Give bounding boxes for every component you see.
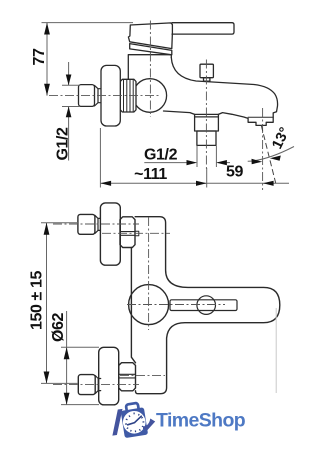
inlet neck chamfer (side view) [95,85,101,106]
bottom inlet neck chamfer (front view) [95,376,101,394]
faint extension line right (front view) [275,308,277,393]
lever pivot circle (front view) [197,296,216,315]
bottom wall flange (front view) [99,347,119,405]
ribbed mounting nut (side view) [120,79,136,112]
top wall flange (front view) [100,203,120,265]
logo stripe [112,409,122,436]
extension line at wall flange [99,128,101,188]
spout underside left segment (side view) [164,111,195,114]
bottom stub centerline [53,384,139,386]
svg-text:150 ± 15: 150 ± 15 [29,271,46,330]
svg-text:13°: 13° [269,125,293,152]
body sphere (side view) [133,79,167,113]
logo clock hands [128,416,142,425]
logo clock face [121,409,147,435]
outlet thread extension lines [197,146,216,167]
shower outlet nut (side view) [195,114,219,131]
inlet stub G1/2 (side view) [79,85,95,107]
diverter/outlet centerline (side view) [205,60,207,171]
bottom body inlet centerline [120,375,165,377]
lever slot (front view) [170,300,237,311]
svg-text:~111: ~111 [134,166,167,183]
faucet body (side view) [128,55,171,81]
extension line at outlet center [206,168,208,188]
angle arc 13 deg [248,147,294,162]
centerlines: side view [49,21,263,191]
handle centerline (front view) [127,304,225,306]
wall flange (side view) [101,65,120,126]
bottom inlet stub (front view) [78,375,95,395]
dimension 150 +/- 15 [41,223,78,384]
shower outlet nut band line [195,116,219,118]
dimension diameter 62 [61,311,99,405]
top mounting nut (front view) [120,217,135,248]
horizontal inlet centerline (side view) [49,95,160,97]
diverter knob stem [204,78,210,82]
dimension 77 [42,23,134,96]
spout outline (side view) [171,58,277,126]
cartridge ring (side view) [130,44,172,55]
svg-text:G1/2: G1/2 [144,147,178,164]
inlet G1/2 dimension arrows (side view) [62,62,80,161]
svg-text:77: 77 [31,48,48,65]
ribbed nut ribs [124,79,134,112]
top inlet stub (front view) [78,214,95,234]
svg-text:TimeShop: TimeShop [156,410,246,432]
bottom dimension line (~111 / 59) [100,128,289,188]
dim arrows bottom line [100,181,273,186]
outlet G1/2 arrows [187,160,227,165]
top nut ledge [135,231,139,236]
top body inlet centerline [102,232,170,234]
vertical centerline of body (side view) [149,21,151,118]
top nut facet lines [120,232,135,236]
column left edge (front view) [131,247,135,362]
vertical centerline (front view) [148,217,150,330]
logo swoosh arrow [143,419,155,431]
centerlines front view [53,217,225,385]
bottom nut facet lines [119,374,136,378]
logo bag body [121,407,149,438]
svg-text:59: 59 [226,164,243,181]
dimension 77 arrows [44,23,50,96]
water stream line 13 deg [261,126,276,184]
top inlet neck chamfer (front view) [95,215,101,233]
body column and lever paddle outline (front view) [135,217,280,394]
diverter knob (side view) [200,64,213,78]
lever bar (side view) [172,23,234,34]
shower outlet thread G1/2 (side view) [197,131,216,145]
svg-text:G1/2: G1/2 [55,127,72,161]
logo clock ticks [125,413,144,433]
handle hub circle (front view) [129,285,169,325]
top stub centerline [53,223,139,225]
bottom mounting nut (front view) [119,363,136,391]
aerator internal line [248,116,273,118]
handle hub (side view) [128,23,172,49]
logo bag handle [126,403,139,413]
angle arc arrows [252,159,263,164]
spout tip centerline (side view) [262,108,264,190]
svg-text:Ø62: Ø62 [50,312,67,342]
